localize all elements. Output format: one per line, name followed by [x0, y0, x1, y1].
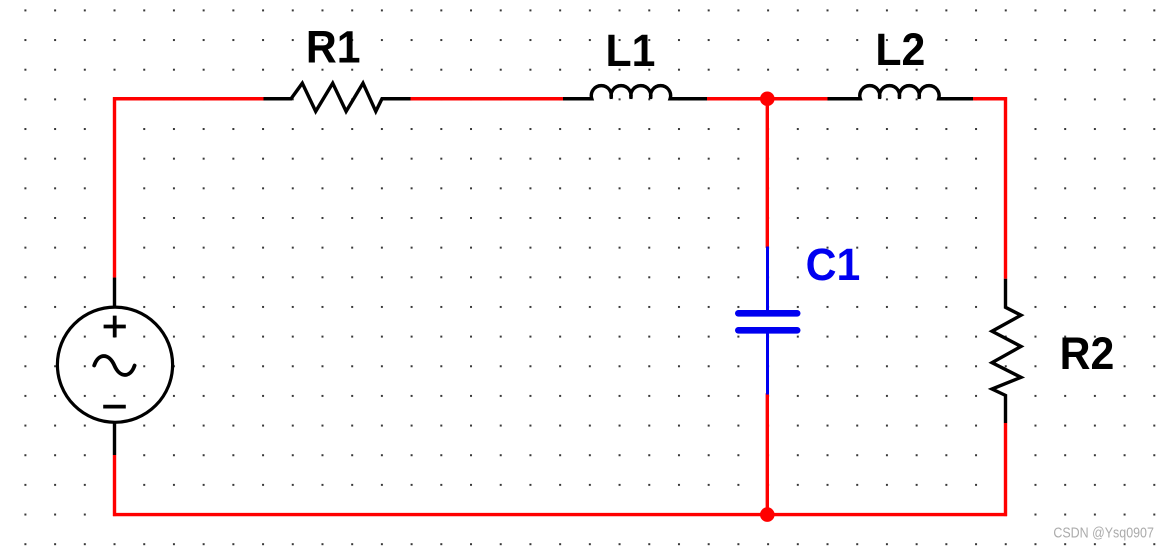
wire R1 to L1 — [411, 97, 564, 100]
wire left vertical above source — [113, 97, 116, 278]
svg-text:L1: L1 — [605, 26, 655, 76]
AC source V1 plus sign — [104, 316, 126, 338]
svg-text:L2: L2 — [875, 25, 925, 75]
capacitor C1 top lead — [766, 247, 769, 311]
svg-text:R1: R1 — [306, 22, 361, 72]
wire bottom horizontal — [113, 513, 1007, 516]
capacitor C1 top plate — [735, 310, 801, 317]
inductor L1 — [563, 86, 707, 99]
svg-text:R2: R2 — [1060, 329, 1115, 379]
capacitor C1 bottom lead — [766, 334, 769, 395]
wire left vertical below source — [113, 455, 116, 516]
svg-text:CSDN @Ysq0907: CSDN @Ysq0907 — [1053, 525, 1154, 541]
wire C1 down to bottom node — [766, 393, 769, 516]
svg-text:C1: C1 — [806, 240, 861, 290]
wire top-left (corner to R1 left pin) — [113, 97, 264, 100]
node B (bottom junction dot) — [760, 507, 775, 522]
AC source V1 bottom pin — [113, 422, 116, 455]
resistor R1 — [264, 83, 411, 111]
inductor L2 — [828, 86, 974, 99]
resistor R2 — [992, 279, 1021, 423]
wire L2 to top-right corner and down — [973, 99, 1006, 279]
wire L1 to L2 through node A — [707, 97, 828, 100]
wire node A down to C1 — [766, 97, 769, 248]
AC source V1 top pin — [113, 278, 116, 308]
capacitor C1 bottom plate — [735, 327, 801, 334]
wire right vertical below R2 — [1004, 423, 1007, 516]
AC source V1 sine wave — [94, 356, 134, 375]
AC source V1 circle — [57, 307, 172, 422]
node A (top junction dot) — [760, 91, 775, 106]
AC source V1 minus sign — [103, 405, 126, 409]
